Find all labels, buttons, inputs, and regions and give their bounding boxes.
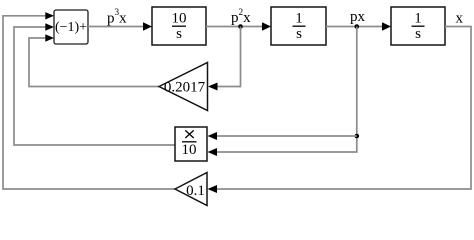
svg-text:1: 1 [295,11,303,27]
gain triangle 0.1 [175,173,207,206]
arrowhead into summing block bottom input [45,34,54,41]
wire: tap from px node down to multiplier inputs [217,27,357,153]
gain triangle 0.2017 [159,63,208,111]
svg-text:s: s [176,26,182,42]
arrowhead into 0.1 gain [208,185,218,193]
arrowhead into 0.2017 gain [208,83,218,91]
svg-text:px: px [350,9,366,25]
wire: second 1/s output, signal x, down right side to 0.1 gain input [217,27,472,190]
arrowhead into multiplier lower input [208,148,218,156]
node dot p2x [238,24,243,29]
arrowhead into multiplier upper input [208,132,218,140]
svg-text:0.1: 0.1 [186,183,205,199]
wire: junction to multiplier upper input [217,135,357,137]
wire: feedback from 0.2017 gain output to summing junction bottom input (vertical x=28.5) [29,38,159,87]
integrator block G1 value 10/s [152,7,206,45]
arrowhead into summing block middle input [45,23,54,30]
svg-text:10: 10 [182,142,197,158]
svg-text:1: 1 [414,11,422,27]
arrowhead into summing block top input [45,12,54,19]
svg-text:s: s [415,26,421,42]
svg-text:s: s [296,26,302,42]
arrowhead into 10/s block [143,22,152,31]
svg-text:0.2017: 0.2017 [164,79,206,95]
wire: summing block output to 10/s block, signal p3x [88,26,143,28]
arrowhead into first 1/s block [262,22,271,31]
svg-text:10: 10 [172,11,187,27]
svg-text:x: x [456,11,464,27]
multiplier block M1 x/10 [175,127,207,161]
summing block S1 "(-1)+" [54,10,88,44]
node dot at multiplier upper input junction [355,134,360,139]
arrowhead into second 1/s block [382,22,391,31]
integrator block I1 value 1/s [271,7,326,45]
node dot px [355,24,360,29]
wire: tap from p2x node down to 0.2017 gain input [218,27,241,87]
svg-text:(−1)+: (−1)+ [55,20,87,35]
wire: first 1/s output to second 1/s block, signal px [326,26,382,28]
wire: feedback from 0.1 gain output to summing junction top input (left vertical x=3) [3,16,175,189]
integrator block I2 value 1/s [391,7,445,45]
wire: feedback from x/10 multiplier output to summing junction middle input (vertical x=13.7) [14,27,175,145]
wire: 10/s output to first 1/s block, signal p2x [206,26,262,28]
